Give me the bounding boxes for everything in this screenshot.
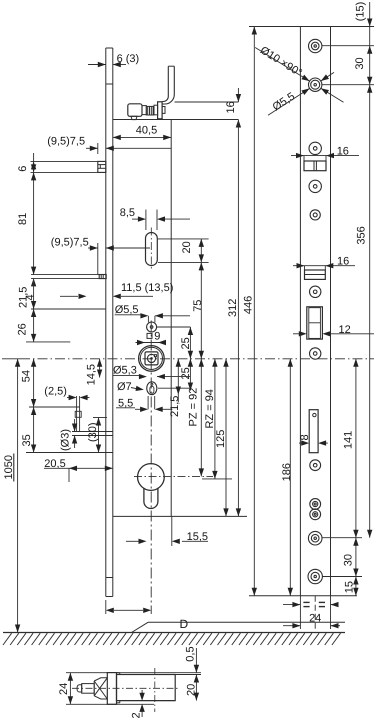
svg-text:(15): (15)	[354, 2, 366, 22]
ground line	[3, 632, 345, 634]
leader O10x90 line	[255, 48, 309, 82]
follower axis dash-dot centerline	[20, 358, 374, 360]
follower inner circle	[140, 347, 162, 369]
svg-text:PZ = 92: PZ = 92	[188, 388, 200, 427]
screw hole 11	[308, 531, 322, 545]
svg-text:2: 2	[131, 712, 143, 718]
svg-text:(2,5): (2,5)	[44, 386, 67, 398]
main vertical centerline	[150, 321, 152, 615]
faceplate screw head upper	[98, 161, 106, 172]
oval slot (latch follower)	[146, 233, 158, 266]
cable outer curve	[162, 66, 168, 101]
svg-text:Ø7: Ø7	[117, 381, 132, 393]
extension keyhole to dims	[158, 387, 190, 389]
svg-text:24: 24	[58, 683, 70, 695]
screw hole 3	[309, 142, 321, 154]
faceplate joint tick bottom	[106, 577, 113, 579]
latch cutout with divider	[304, 161, 326, 171]
follower spindle circle	[147, 354, 155, 362]
detail pin flange	[107, 673, 116, 705]
extension lines left blocks	[31, 274, 106, 276]
detail vertical centerline	[154, 668, 156, 712]
cable connector plug body	[128, 104, 142, 117]
svg-text:14,5: 14,5	[85, 364, 97, 385]
svg-text:40,5: 40,5	[136, 125, 157, 137]
svg-text:(9,5)7,5: (9,5)7,5	[51, 236, 89, 248]
plate bottom centerline dashed	[314, 596, 316, 629]
follower notch	[154, 355, 156, 357]
connector barrel	[142, 106, 146, 115]
keyhole O7/O5.3	[147, 382, 157, 395]
faceplate bottom edge	[106, 596, 113, 598]
faceplate O3 hole lines	[106, 431, 113, 433]
svg-text:9: 9	[154, 330, 160, 342]
svg-text:15: 15	[344, 581, 356, 593]
svg-text:125: 125	[215, 430, 227, 448]
ext line hole1	[322, 45, 374, 47]
deadbolt opening	[307, 307, 323, 339]
svg-text:75: 75	[192, 300, 204, 312]
svg-text:Ø5,3: Ø5,3	[113, 365, 137, 377]
follower outer circle	[139, 346, 165, 372]
svg-text:8: 8	[299, 434, 311, 440]
screw hole 4	[309, 180, 321, 192]
follower square 9mm	[145, 352, 158, 365]
cylinder profile pear	[144, 488, 158, 509]
detail pin body	[117, 675, 176, 701]
svg-text:446: 446	[243, 296, 255, 314]
svg-text:6: 6	[17, 166, 29, 172]
detail horizontal centerline	[72, 687, 180, 689]
svg-text:26: 26	[17, 323, 29, 335]
oval centerline	[150, 228, 152, 271]
screw hole top	[309, 39, 322, 52]
svg-text:16: 16	[225, 101, 237, 113]
faceplate top edge	[106, 47, 113, 49]
screw hole 6	[310, 286, 321, 297]
screw hole 8	[310, 460, 321, 471]
svg-text:30: 30	[343, 554, 355, 566]
detail pin tip cap	[77, 685, 82, 692]
screw hole 5	[310, 210, 320, 220]
hole O5.5 circle	[147, 322, 157, 332]
svg-text:0,5: 0,5	[185, 646, 197, 661]
connector foot	[131, 116, 137, 119]
dim arrows at bottom of faceplate	[105, 600, 107, 614]
extension line O5.5 to 25 dim	[157, 326, 191, 328]
cable end cap	[168, 65, 174, 67]
slot 8mm	[309, 410, 318, 453]
svg-text:24: 24	[309, 612, 321, 624]
svg-text:356: 356	[356, 226, 368, 244]
connector stub	[162, 107, 165, 114]
faceplate screw head lower	[99, 275, 106, 279]
cylinder profile circle	[138, 464, 165, 491]
svg-text:186: 186	[281, 463, 293, 481]
cutout 2	[305, 270, 326, 279]
dash-dot stub to 1050	[2, 358, 20, 360]
faceplate front edge	[105, 48, 107, 597]
ext line hole2	[322, 84, 374, 86]
cable inner curve	[162, 66, 174, 104]
faceplate tick at 452	[106, 452, 113, 454]
faceplate back edge	[112, 48, 114, 597]
svg-text:20: 20	[181, 241, 193, 253]
equal spacing marks	[283, 604, 300, 606]
svg-text:54: 54	[20, 370, 32, 382]
detail pin shaft	[82, 684, 95, 694]
svg-text:(9,5)7,5: (9,5)7,5	[47, 135, 85, 147]
lock case outline	[113, 119, 239, 121]
screw hole pair upper	[310, 499, 321, 510]
svg-text:RZ = 94: RZ = 94	[204, 389, 216, 428]
svg-text:8,5: 8,5	[120, 207, 135, 219]
strike plate outline	[299, 27, 301, 596]
slot hole	[313, 413, 316, 416]
ground hatching	[3, 633, 12, 645]
svg-text:81: 81	[17, 213, 29, 225]
svg-text:11,5 (13,5): 11,5 (13,5)	[121, 282, 173, 294]
faceplate joint tick top	[106, 83, 113, 85]
svg-text:141: 141	[343, 431, 355, 449]
detail pin cone with cross	[94, 678, 107, 699]
detail body bottom lip	[117, 700, 176, 702]
svg-text:30: 30	[354, 57, 366, 69]
svg-text:21,5: 21,5	[169, 396, 181, 417]
screw hole 12	[308, 569, 322, 583]
dim square9 follower	[147, 333, 152, 338]
screw hole pair lower	[310, 509, 321, 520]
connector nut	[154, 105, 158, 115]
cylinder crosshair horizontal	[134, 475, 213, 477]
detail body step bottom	[117, 702, 120, 704]
connector threaded section	[146, 106, 154, 115]
countersunk hole O10x90	[309, 78, 322, 91]
screw hole 7	[310, 348, 321, 359]
svg-text:312: 312	[227, 299, 239, 317]
leader O5,5 line	[268, 88, 310, 115]
svg-text:21,5: 21,5	[17, 287, 29, 308]
cable line upper extension	[175, 101, 239, 103]
svg-text:Ø5,5: Ø5,5	[115, 304, 139, 316]
detail body step top	[117, 672, 120, 674]
svg-text:(Ø3): (Ø3)	[60, 429, 72, 451]
svg-text:D: D	[180, 617, 189, 631]
connector mounting plate	[158, 102, 163, 119]
